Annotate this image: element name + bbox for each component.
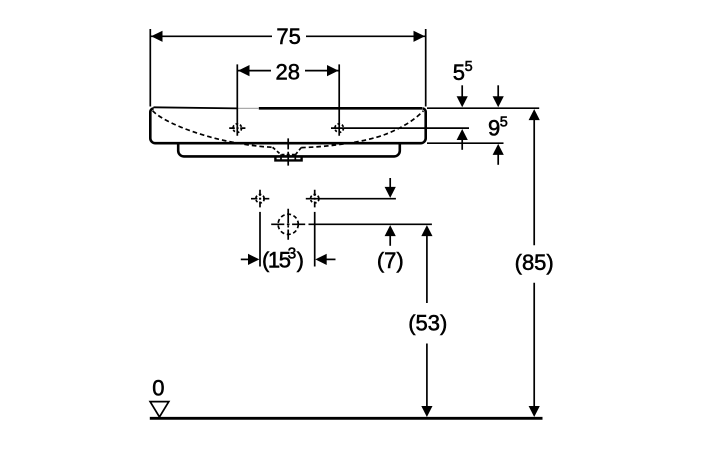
basin funnel dashed bottom (282, 154, 296, 156)
top view tap hole B vertical arm (314, 190, 316, 208)
dimension 75 extension line left (149, 29, 151, 107)
dimension 85 arrow down (529, 406, 540, 417)
svg-text:3: 3 (288, 245, 297, 262)
svg-text:): ) (297, 247, 304, 272)
tap hole right (front view) circle (335, 124, 344, 133)
top view tap hole B circle (311, 195, 319, 203)
dimension 15.3 arrow left tail (326, 258, 336, 260)
dimension 28 arrow right (327, 65, 338, 76)
drain flange inner wall right (294, 154, 296, 160)
svg-text:5: 5 (453, 60, 465, 85)
tap hole centre reference line 5.5 (331, 127, 469, 129)
dimension 53 line lower segment (426, 344, 428, 409)
top view drain circle (278, 214, 298, 234)
dimension 7 arrow down tail (389, 178, 391, 189)
top view tap hole A circle (256, 195, 264, 203)
dimension 5.5 arrow up (457, 129, 468, 140)
zero level triangle marker (150, 402, 169, 417)
dimension 28 arrow left (238, 65, 249, 76)
dimension 75 arrow right (414, 31, 425, 42)
svg-text:5: 5 (465, 59, 473, 75)
drain level reference line (309, 223, 432, 225)
basin rim top edge right segment (259, 107, 422, 110)
dimension 53 arrow down (421, 406, 432, 417)
top view drain vertical centerline (287, 209, 289, 240)
dimension 28 extension line right (338, 64, 340, 135)
dimension 15.3 arrow right (248, 254, 259, 265)
dimension 75 line left segment (151, 35, 272, 37)
top view drain horizontal centerline (271, 223, 305, 225)
dimension 9.5 arrow down tail (497, 85, 499, 98)
basin interior dashed contour right (301, 111, 423, 148)
dimension 9.5 arrow up tail (497, 154, 499, 165)
svg-text:(7): (7) (377, 248, 404, 273)
svg-text:9: 9 (488, 116, 500, 141)
rim extension line to right (427, 107, 539, 109)
svg-text:(85): (85) (515, 250, 554, 275)
dimension 75 line right segment (306, 35, 425, 37)
svg-text:28: 28 (275, 60, 299, 85)
basin body outline (front view) (150, 108, 425, 143)
dimension 28 extension line left (236, 64, 238, 135)
dimension 15.3 arrow left (315, 254, 326, 265)
dimension 85 line upper segment (533, 118, 535, 245)
dimension 75 extension line right (425, 29, 427, 107)
top view tap hole A horizontal arm (251, 198, 269, 200)
dimension 7 arrow up tail (389, 235, 391, 246)
dimension 5.5 arrow down (457, 96, 468, 107)
top view tap hole A vertical arm (259, 190, 261, 208)
dimension 5.5 arrow up tail (461, 139, 463, 150)
svg-text:5: 5 (500, 115, 508, 131)
svg-text:(53): (53) (408, 310, 447, 335)
svg-text:75: 75 (276, 24, 300, 49)
dimension 85 line lower segment (533, 283, 535, 409)
tap hole left horizontal arm (229, 127, 245, 129)
top view tap hole A extension line down (259, 212, 261, 267)
basin interior dashed contour left (153, 111, 273, 148)
dimension 53 line upper segment (426, 234, 428, 303)
dimension 5.5 arrow down tail (461, 85, 463, 98)
dimension 75 arrow left (151, 31, 162, 42)
basin funnel dashed left (273, 147, 281, 154)
tap hole left (front view) circle (233, 124, 242, 133)
dimension 15.3 arrow right tail (241, 258, 250, 260)
basin rim top edge faint middle segment (237, 107, 258, 109)
basin skirt (178, 143, 400, 156)
dimension 7 arrow down (385, 187, 396, 198)
dimension 28 line right segment (305, 70, 339, 72)
basin rim top edge left segment (154, 107, 238, 108)
dimension 9.5 arrow down (493, 96, 504, 107)
top view tap hole B horizontal arm + reference line 7 top (306, 198, 396, 200)
svg-text:(15: (15 (262, 247, 291, 272)
dimension 9.5 arrow up (493, 144, 504, 155)
apron bottom reference line 9.5 (427, 142, 504, 144)
dimension 53 arrow up (421, 225, 432, 236)
drain flange inner wall left (280, 154, 282, 160)
svg-text:0: 0 (152, 376, 164, 401)
drain centerline front view (287, 138, 289, 165)
zero level baseline (150, 417, 543, 420)
basin funnel dashed right (296, 148, 302, 155)
dimension 28 line left segment (238, 70, 271, 72)
drain outlet flange (275, 157, 301, 161)
top view tap hole B extension line down (314, 212, 316, 267)
dimension 7 arrow up (385, 225, 396, 236)
dimension 85 arrow up (529, 109, 540, 120)
